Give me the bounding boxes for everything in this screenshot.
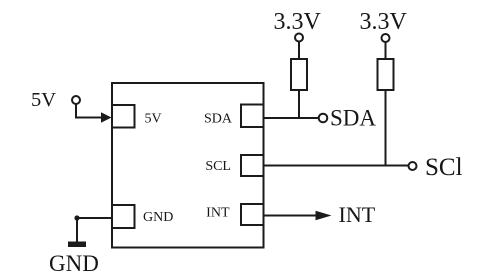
- svg-text:INT: INT: [206, 206, 230, 221]
- svg-text:3.3V: 3.3V: [274, 9, 322, 35]
- svg-text:INT: INT: [339, 202, 376, 227]
- svg-text:SDA: SDA: [330, 106, 376, 131]
- wire 5V input: [76, 105, 102, 118]
- pin INT box: [241, 204, 264, 225]
- resistor R2: [378, 59, 394, 90]
- wire SDA net: [264, 117, 319, 119]
- pin SDA box: [241, 105, 264, 128]
- svg-text:SCL: SCL: [205, 159, 231, 174]
- svg-text:3.3V: 3.3V: [360, 9, 408, 35]
- junction dot GND: [74, 215, 79, 220]
- wire R2 to SCL net: [385, 90, 387, 166]
- pin SCL box: [241, 155, 264, 176]
- pin GND box: [112, 205, 135, 228]
- wire GND pin to ground: [77, 218, 112, 242]
- wire R1 to SDA net: [298, 90, 300, 118]
- terminal circle SDA: [319, 114, 328, 123]
- svg-text:SCl: SCl: [425, 154, 463, 181]
- svg-text:SDA: SDA: [204, 112, 233, 127]
- wire INT output: [264, 215, 317, 217]
- wire pull-up R2 top: [385, 43, 387, 60]
- pin 5V box: [112, 105, 135, 128]
- terminal circle 5V: [72, 96, 80, 104]
- svg-text:5V: 5V: [145, 112, 162, 127]
- ground bar symbol: [68, 242, 86, 248]
- svg-text:GND: GND: [143, 210, 173, 225]
- svg-text:GND: GND: [49, 251, 99, 276]
- terminal circle SCL: [409, 162, 417, 170]
- wire pull-up R1 top: [298, 42, 300, 59]
- arrowhead INT output: [316, 211, 332, 221]
- arrowhead into 5V pin: [101, 112, 112, 122]
- svg-text:5V: 5V: [31, 89, 56, 111]
- IC U1 body: [112, 83, 264, 248]
- terminal circle 3.3V left: [295, 34, 303, 42]
- terminal circle 3.3V right: [382, 34, 390, 42]
- wire SCL net: [264, 165, 409, 167]
- resistor R1: [291, 59, 307, 90]
